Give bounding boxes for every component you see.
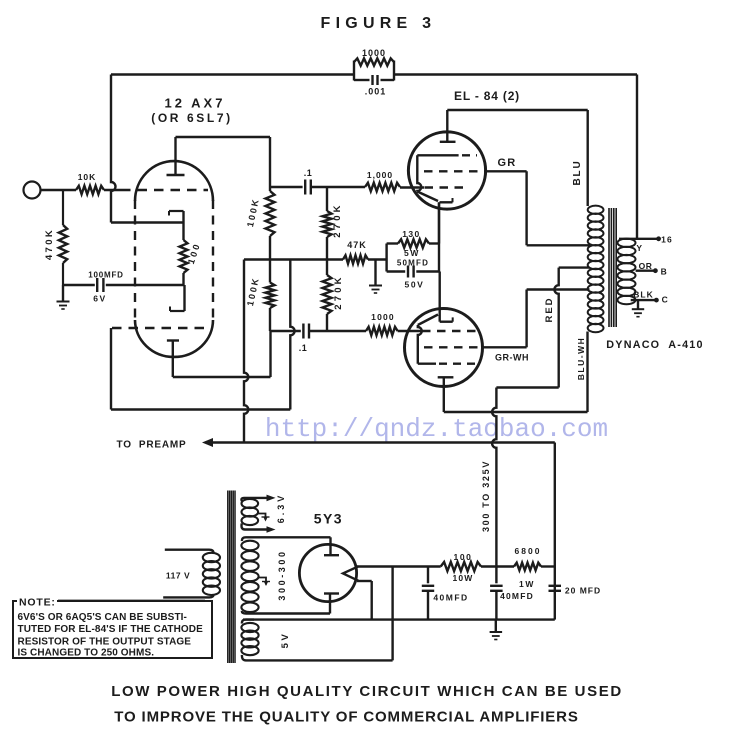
wire 16 ohm tap [619, 238, 658, 240]
svg-text:RED: RED [544, 296, 555, 322]
note box [13, 601, 212, 658]
svg-text:GR-WH: GR-WH [495, 353, 529, 363]
wire phase splitter vertical [290, 260, 294, 410]
svg-text:TO IMPROVE THE QUALITY OF COMM: TO IMPROVE THE QUALITY OF COMMERCIAL AMP… [114, 709, 578, 726]
resistor 470K [62, 190, 64, 225]
wire 100K chain bottom [269, 308, 271, 331]
svg-text:.1: .1 [299, 343, 308, 353]
plate bottom 5Y3 [329, 594, 331, 614]
wire GR tap [525, 171, 527, 245]
beam plate upper EL84 [417, 154, 458, 156]
svg-text:1000: 1000 [362, 48, 386, 58]
wire lower plate horizontal [173, 376, 271, 378]
note line [58, 600, 205, 602]
wire BLK tap [631, 299, 656, 301]
transformer T2 core [227, 491, 229, 664]
wire OR tap [636, 270, 654, 272]
svg-text:300 TO 325V: 300 TO 325V [481, 460, 491, 532]
wire screen to GR [484, 170, 527, 172]
wire feedback top-left vertical [111, 75, 116, 223]
svg-text:.1: .1 [304, 168, 313, 178]
wire cathode bus left [63, 284, 95, 286]
transformer T1 primary winding [588, 206, 604, 214]
wire 270K chain top [326, 187, 328, 211]
svg-text:GR: GR [498, 157, 517, 169]
wire to preamp [206, 441, 555, 443]
tube EL-84 upper envelope [408, 132, 485, 209]
svg-text:EL - 84 (2): EL - 84 (2) [454, 89, 520, 103]
svg-text:300-300: 300-300 [277, 549, 287, 600]
wire BLU-WH lower plate run [586, 332, 588, 413]
resistor 270K upper [323, 211, 332, 237]
resistor 130 5W block [385, 244, 387, 272]
wire 10K to grid [104, 189, 121, 191]
svg-text:5W: 5W [404, 248, 420, 258]
wire lower grid corner down [110, 328, 112, 410]
svg-text:BLU: BLU [572, 160, 583, 186]
wire B+ drop to preamp line [244, 260, 248, 443]
filament 5Y3 [343, 566, 359, 581]
resistor 1000 feedback [353, 61, 355, 81]
tube EL-84 lower envelope [405, 309, 483, 387]
ground PSU [495, 620, 497, 632]
svg-text:NOTE:: NOTE: [19, 597, 56, 609]
tube 5Y3 envelope [299, 544, 356, 601]
cathode upper triode [169, 210, 184, 212]
svg-text:130: 130 [402, 229, 420, 239]
svg-text:40MFD: 40MFD [500, 591, 534, 601]
svg-text:1000: 1000 [371, 312, 395, 322]
svg-text:10W: 10W [452, 573, 473, 583]
wire filament top to B+ [357, 565, 441, 567]
wire filament bottom [357, 580, 372, 582]
wire bias ground drop [374, 260, 376, 286]
wire coupling to 270K junction lower [309, 330, 366, 332]
tube 12AX7 envelope top dome [135, 161, 213, 201]
winding 117V [203, 553, 220, 562]
wire feedback to cathode [111, 221, 184, 223]
wire lower plate corner up [269, 331, 271, 377]
wire feedback top horizontal right [394, 73, 637, 75]
ground at bias network [369, 285, 382, 287]
svg-text:20 MFD: 20 MFD [565, 586, 601, 596]
svg-text:270K: 270K [333, 274, 344, 310]
plate lower triode 12AX7 [167, 339, 179, 341]
resistor 100 cathode [180, 240, 188, 273]
beam plate lower EL84 [418, 315, 438, 326]
svg-text:47K: 47K [347, 240, 367, 250]
svg-text:100: 100 [454, 552, 473, 562]
transformer T1 core [608, 208, 610, 327]
svg-text:1W: 1W [519, 579, 535, 589]
capacitor 40MFD first [427, 567, 429, 584]
capacitor 20MFD [554, 586, 556, 592]
svg-text:DYNACO A-410: DYNACO A-410 [606, 339, 703, 351]
svg-text:OR: OR [639, 261, 653, 271]
arrow to preamp [202, 438, 213, 447]
svg-text:100MFD: 100MFD [88, 271, 123, 280]
wire 100K chain top [269, 137, 271, 191]
svg-text:50V: 50V [405, 280, 425, 290]
wire 1000 to EL84 grid lower [398, 330, 421, 332]
svg-text:40MFD: 40MFD [433, 593, 468, 603]
capacitor .001 feedback [371, 75, 373, 85]
resistor 10K [76, 186, 104, 194]
svg-text:5Y3: 5Y3 [314, 511, 343, 527]
svg-text:B: B [661, 266, 668, 276]
wire feedback top horizontal left [111, 73, 354, 75]
winding 5V [241, 623, 258, 632]
wire lower plate to BLU-WH [444, 411, 588, 413]
wire 1000 to EL84 grid upper [400, 186, 424, 188]
wire 47K to 130 block [368, 258, 387, 260]
wire 270K mid [326, 237, 328, 275]
wire lower horizontal to preamp node [111, 408, 290, 410]
svg-text:.001: .001 [365, 87, 387, 97]
svg-text:100: 100 [186, 241, 202, 266]
svg-text:C: C [662, 295, 669, 305]
svg-text:100K: 100K [245, 276, 261, 307]
svg-text:6V: 6V [93, 294, 107, 304]
winding 300-300 [241, 541, 258, 551]
capacitor 50MFD [407, 266, 409, 278]
center tap 300-300 [259, 578, 266, 585]
wire 6800 to preamp node [541, 565, 555, 567]
ground at input stage [62, 285, 64, 301]
wire ground bus [243, 618, 555, 620]
tube 12AX7 envelope dashed sides [134, 200, 136, 321]
svg-text:Y: Y [636, 243, 642, 253]
plate upper EL84 [440, 141, 456, 143]
plate upper triode 12AX7 [167, 174, 185, 176]
capacitor 40MFD second [495, 567, 497, 584]
center tap 6.3V [258, 514, 266, 521]
wire plate to coupling cap upper [270, 186, 303, 188]
svg-text:BLK: BLK [633, 290, 653, 300]
wire coupling to 1000 upper [311, 186, 365, 188]
wire input to grid [41, 189, 77, 191]
grid upper triode dashed [121, 189, 208, 191]
capacitor .1 upper [304, 180, 306, 195]
resistor 270K lower [323, 275, 332, 314]
input jack J1 [24, 182, 41, 199]
resistor 6800 [514, 563, 541, 571]
wire plate to coupling cap lower [270, 330, 301, 332]
plate lower EL84 [438, 376, 454, 378]
capacitor .1 lower [302, 324, 304, 339]
ground secondary [637, 300, 639, 309]
svg-text:F I G U R E 3: F I G U R E 3 [321, 15, 432, 32]
tube 12AX7 envelope bottom dome [135, 320, 213, 357]
svg-text:(OR 6SL7): (OR 6SL7) [151, 111, 232, 125]
wire 100 to 6800 [481, 565, 514, 567]
transformer T1 secondary winding [618, 239, 636, 247]
wire 5V return [391, 567, 393, 661]
cathode lower triode [170, 310, 185, 312]
winding 6.3V [242, 499, 259, 508]
wire BLU upper plate run [447, 109, 587, 111]
svg-text:RESISTOR OF THE OUTPUT STAGE: RESISTOR OF THE OUTPUT STAGE [18, 637, 192, 648]
svg-text:6V6'S OR 6AQ5'S CAN BE SUBSTI-: 6V6'S OR 6AQ5'S CAN BE SUBSTI- [18, 612, 187, 623]
screen grid lower EL84 dashed [424, 346, 481, 348]
wire GR-WH tap [525, 290, 527, 348]
resistor 100 10W [441, 562, 481, 571]
svg-text:IS CHANGED TO 250 OHMS.: IS CHANGED TO 250 OHMS. [18, 648, 155, 659]
wire B+ row [244, 258, 343, 260]
wire cathode bus right [106, 284, 185, 286]
wire upper plate to 100K [176, 136, 271, 138]
svg-text:5V: 5V [280, 632, 291, 649]
svg-text:TUTED FOR EL-84'S IF THE CATHO: TUTED FOR EL-84'S IF THE CATHODE [18, 624, 204, 635]
screen grid upper EL84 dashed [424, 170, 484, 172]
grid lower triode dashed [112, 327, 205, 329]
resistor 1000 upper grid [365, 183, 400, 191]
resistor 100K lower [266, 283, 275, 309]
wire feedback right vertical to 16-ohm tap [636, 75, 638, 239]
svg-text:6800: 6800 [515, 546, 542, 556]
wire B+ riser 300-325V [492, 388, 496, 567]
control grid lower EL84 dashed [422, 330, 478, 332]
svg-text:50MFD: 50MFD [397, 259, 429, 268]
capacitor 100MFD [96, 278, 98, 292]
svg-text:12 AX7: 12 AX7 [165, 96, 226, 111]
svg-text:http://qndz.taobao.com: http://qndz.taobao.com [265, 414, 608, 444]
cathode upper EL84 [440, 201, 453, 203]
svg-text:BLU-WH: BLU-WH [576, 337, 586, 380]
resistor 47K [343, 255, 368, 263]
svg-text:270K: 270K [332, 202, 343, 238]
svg-text:117 V: 117 V [166, 571, 190, 581]
wire 270K chain bottom [326, 314, 328, 331]
resistor 100K upper [266, 191, 275, 236]
control grid upper EL84 dashed [425, 186, 469, 188]
svg-text:10K: 10K [78, 172, 97, 182]
svg-text:470K: 470K [44, 228, 55, 260]
svg-text:6.3V: 6.3V [276, 493, 286, 524]
svg-text:100K: 100K [245, 197, 261, 228]
svg-text:TO PREAMP: TO PREAMP [116, 440, 186, 451]
svg-text:1,000: 1,000 [367, 170, 393, 180]
resistor 1000 lower grid [366, 327, 398, 335]
plate top 5Y3 [329, 537, 331, 555]
svg-text:16: 16 [661, 235, 673, 245]
wire between 100Ks [269, 236, 271, 283]
cathode lower EL84 [440, 321, 453, 323]
wire cathode bus EL84s [438, 202, 440, 243]
svg-text:LOW POWER HIGH QUALITY CIRCUIT: LOW POWER HIGH QUALITY CIRCUIT WHICH CAN… [111, 683, 623, 700]
wire RED center tap [559, 266, 590, 268]
wire screen to GR-WH [481, 346, 527, 348]
